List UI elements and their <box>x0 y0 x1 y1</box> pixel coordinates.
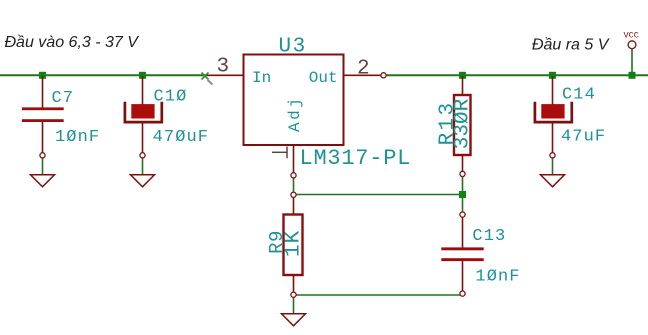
svg-text:1K: 1K <box>283 230 306 257</box>
capacitor C13 <box>441 212 483 296</box>
svg-text:1ØnF: 1ØnF <box>475 267 520 286</box>
junction at VCC <box>629 72 636 79</box>
svg-text:C14: C14 <box>562 86 596 105</box>
wire Adj vertical <box>293 177 295 193</box>
junction Adj node at R13 bottom <box>459 191 466 198</box>
svg-text:C7: C7 <box>52 89 75 108</box>
pin number 1 (rotated) <box>272 147 287 159</box>
resistor R9 <box>284 192 303 297</box>
svg-text:33ØR: 33ØR <box>451 98 474 149</box>
pin 1 end circle <box>291 173 296 178</box>
svg-text:U3: U3 <box>279 36 307 59</box>
svg-text:C13: C13 <box>472 227 506 246</box>
wire bottom horizontal R9 to C13 <box>294 294 463 296</box>
wire node to C13 top <box>462 197 464 212</box>
ground (R9) <box>282 314 306 326</box>
wire C10 to ground <box>142 157 144 175</box>
pin 2 end circle <box>381 73 386 78</box>
junction at C7 <box>39 72 46 79</box>
svg-text:LM317-PL: LM317-PL <box>300 146 412 171</box>
ground (C10) <box>131 175 155 187</box>
wire Adj horizontal to R13 node <box>294 194 463 196</box>
svg-text:C1Ø: C1Ø <box>154 88 188 107</box>
svg-text:Đầu ra 5 V: Đầu ra 5 V <box>532 36 610 53</box>
svg-text:1ØnF: 1ØnF <box>55 128 100 147</box>
ground (C14) <box>541 175 565 187</box>
wire main output segment <box>384 74 648 76</box>
svg-text:VCC: VCC <box>624 31 639 41</box>
wire end X mark <box>202 73 213 85</box>
svg-text:Adj: Adj <box>286 96 304 132</box>
wire C14 to ground <box>552 157 554 175</box>
svg-text:In: In <box>252 69 271 87</box>
svg-text:3: 3 <box>217 56 230 79</box>
junction at C10 <box>139 72 146 79</box>
capacitor C7 <box>22 76 64 158</box>
capacitor C14 (polarized) <box>535 76 572 158</box>
power VCC <box>624 31 639 49</box>
capacitor C10 (polarized) <box>125 76 162 158</box>
svg-text:47ØuF: 47ØuF <box>153 128 210 147</box>
resistor R13 <box>454 76 471 176</box>
wire R9 to ground <box>293 297 295 314</box>
op-amp U1 regulator U3 body <box>244 55 344 146</box>
svg-text:Đầu vào 6,3 - 37 V: Đầu vào 6,3 - 37 V <box>5 34 140 51</box>
wire main input segment <box>0 74 206 76</box>
pin 1 (Adj) line <box>293 145 295 173</box>
svg-text:47uF: 47uF <box>561 128 606 147</box>
pin 3 (In) line <box>207 74 244 76</box>
wire R13 bottom to node <box>462 176 464 193</box>
svg-text:2: 2 <box>357 58 370 81</box>
pin 2 (Out) line <box>344 74 381 76</box>
wire C7 to ground <box>42 157 44 175</box>
wire VCC drop <box>631 49 633 75</box>
ground (C7) <box>31 175 55 187</box>
junction at R13 top <box>459 72 466 79</box>
svg-text:Out: Out <box>309 69 338 87</box>
junction at C14 <box>549 72 556 79</box>
